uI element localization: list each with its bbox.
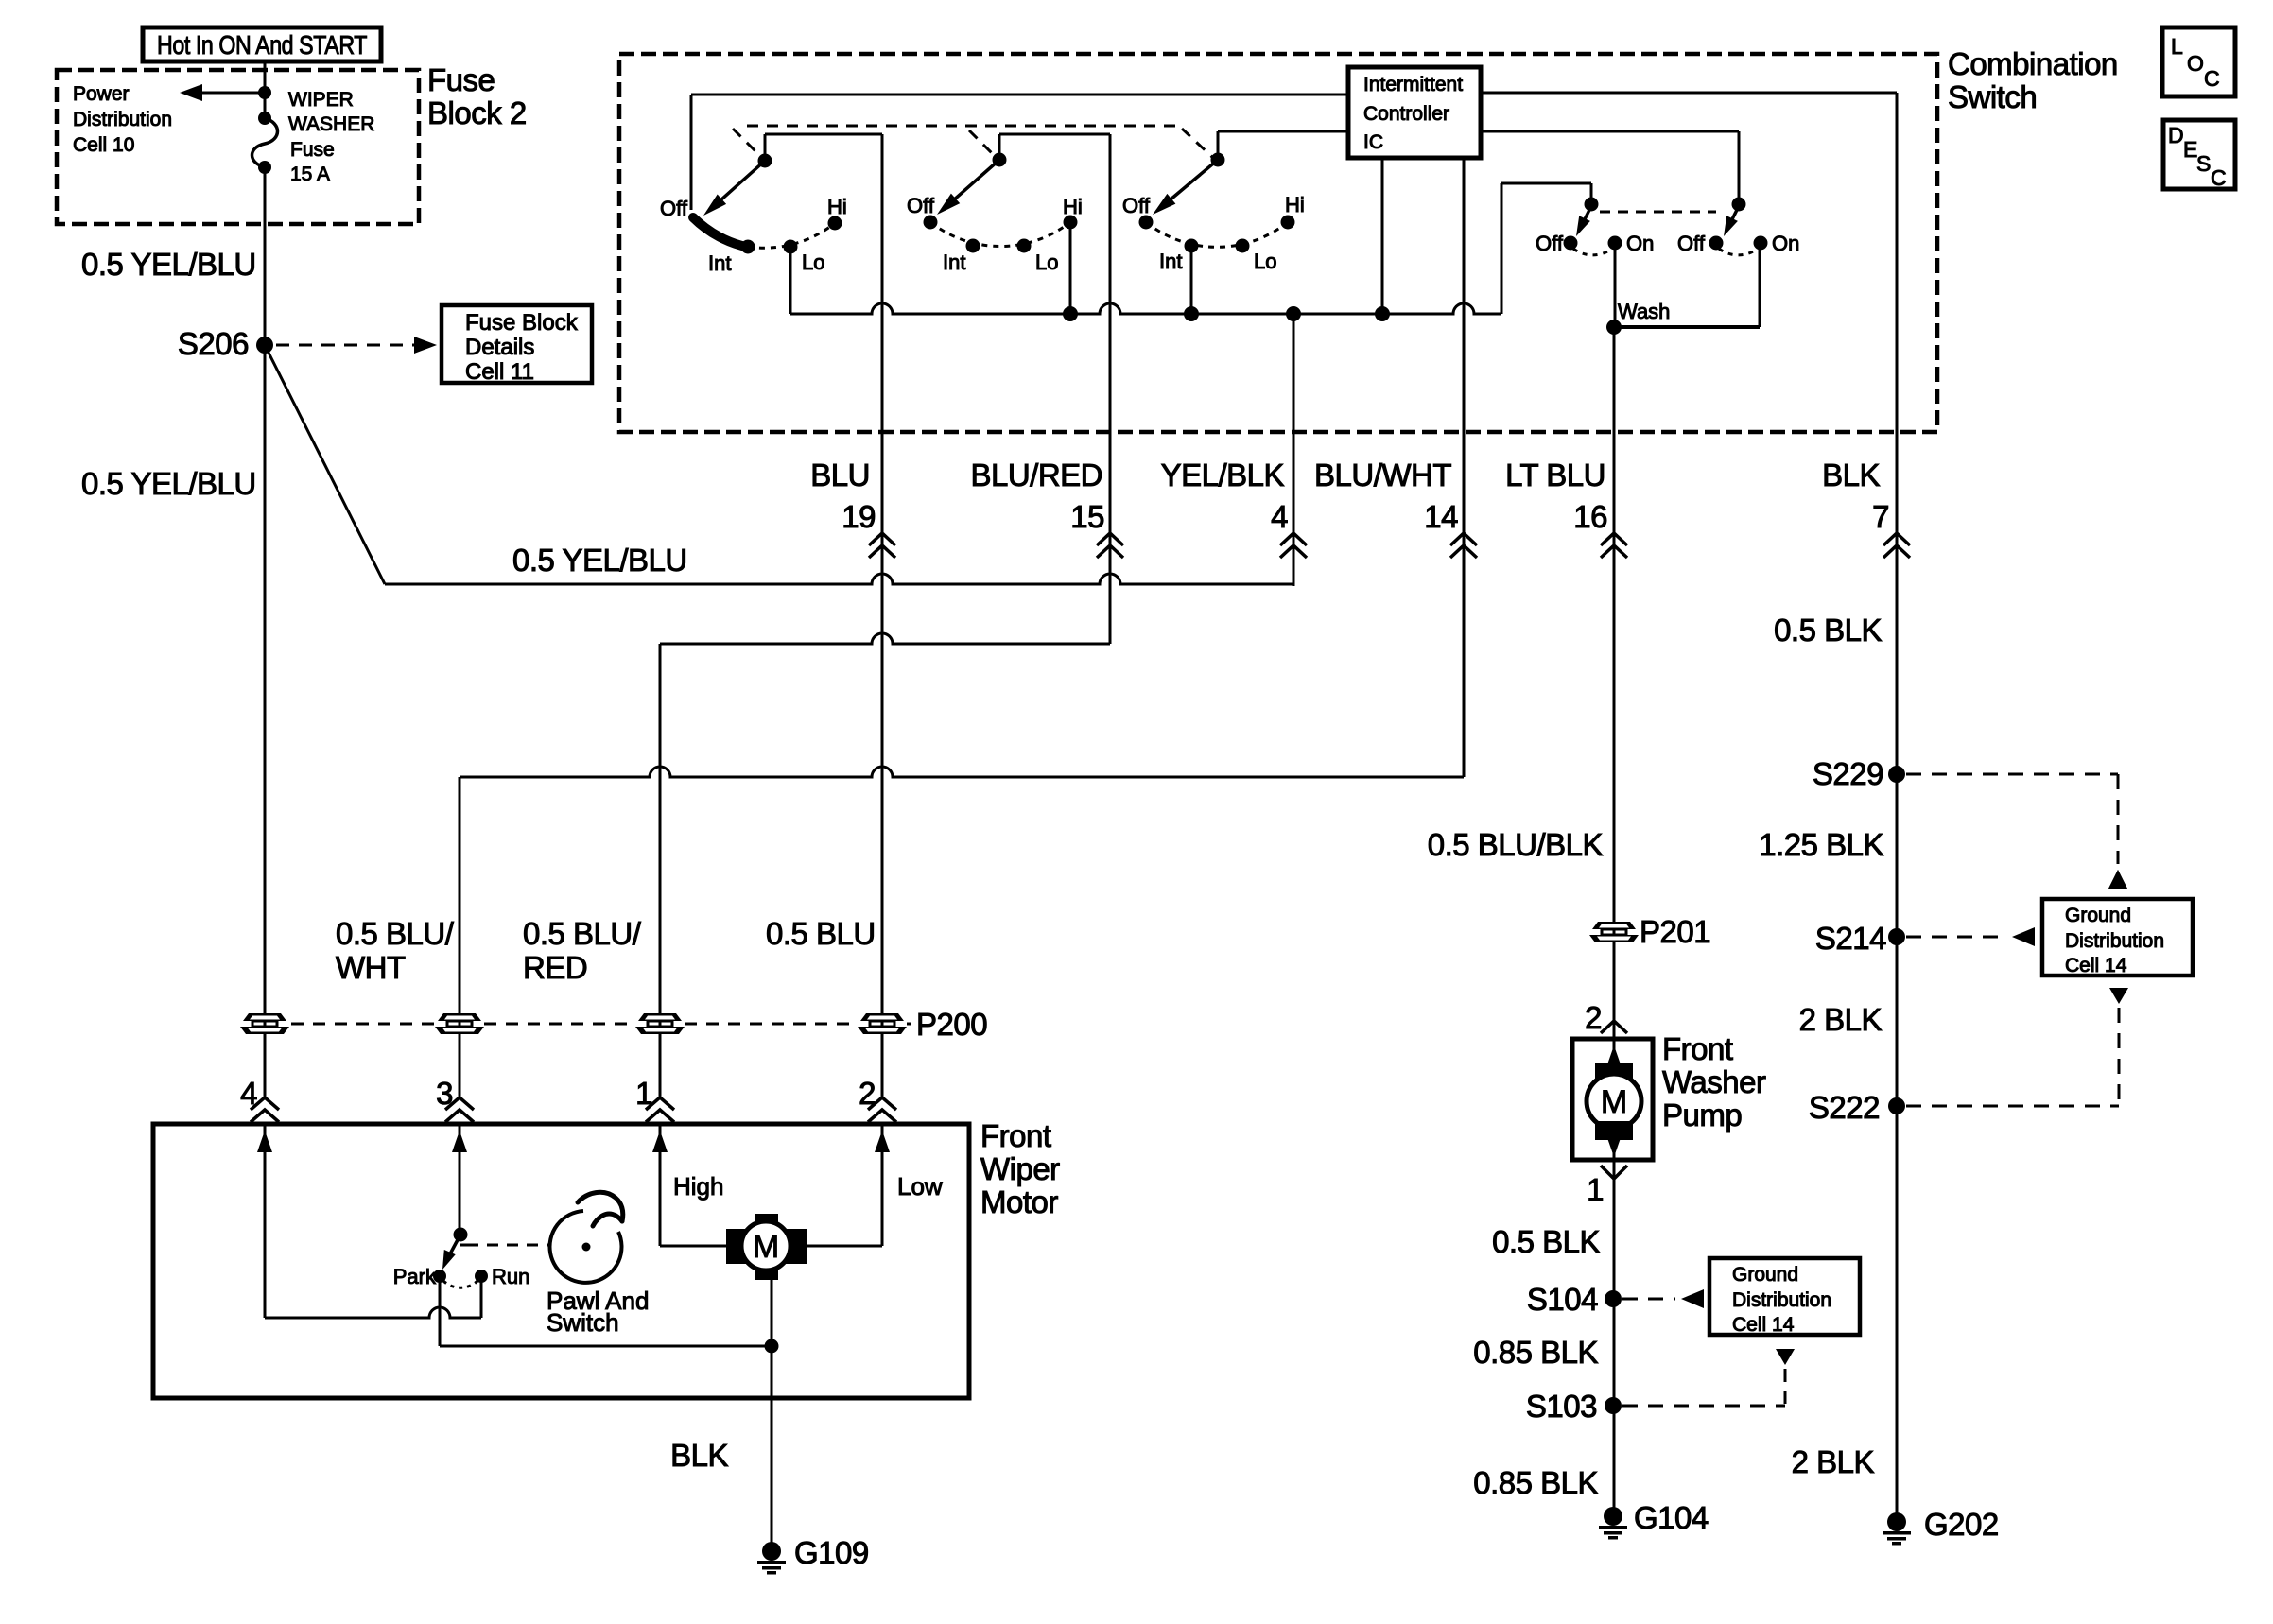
svg-text:Int: Int: [943, 251, 965, 274]
svg-text:Front: Front: [1662, 1031, 1733, 1066]
svg-text:IC: IC: [1363, 131, 1383, 153]
svg-text:7: 7: [1872, 499, 1889, 534]
svg-text:1: 1: [1587, 1172, 1604, 1207]
svg-text:Hot In ON And START: Hot In ON And START: [157, 30, 367, 60]
svg-text:0.5 YEL/BLU: 0.5 YEL/BLU: [512, 543, 687, 578]
svg-text:Hi: Hi: [1063, 195, 1083, 218]
svg-text:Low: Low: [897, 1172, 943, 1201]
svg-text:WASHER: WASHER: [288, 113, 374, 135]
svg-text:S104: S104: [1527, 1282, 1598, 1317]
svg-text:P200: P200: [916, 1007, 987, 1042]
svg-text:Off: Off: [1122, 194, 1151, 217]
svg-text:S214: S214: [1815, 921, 1886, 956]
svg-text:0.5 YEL/BLU: 0.5 YEL/BLU: [81, 466, 256, 501]
svg-text:Cell 14: Cell 14: [1732, 1314, 1795, 1336]
svg-text:2 BLK: 2 BLK: [1792, 1444, 1875, 1479]
svg-text:L: L: [2171, 34, 2183, 59]
svg-text:0.5 YEL/BLU: 0.5 YEL/BLU: [81, 247, 256, 282]
svg-text:RED: RED: [523, 950, 587, 985]
svg-text:Motor: Motor: [980, 1184, 1058, 1219]
svg-text:Distribution: Distribution: [73, 109, 172, 130]
svg-text:G109: G109: [794, 1535, 869, 1570]
svg-text:0.5 BLU: 0.5 BLU: [766, 916, 876, 951]
svg-text:0.5 BLK: 0.5 BLK: [1774, 613, 1882, 648]
svg-text:WHT: WHT: [336, 950, 406, 985]
svg-text:O: O: [2187, 51, 2204, 76]
svg-text:Cell 10: Cell 10: [73, 134, 134, 156]
svg-text:Off: Off: [907, 194, 935, 217]
svg-text:Fuse: Fuse: [427, 62, 495, 97]
svg-text:0.5 BLU/: 0.5 BLU/: [336, 916, 455, 951]
svg-text:S103: S103: [1526, 1389, 1597, 1424]
svg-text:0.5 BLU/: 0.5 BLU/: [523, 916, 642, 951]
svg-text:2 BLK: 2 BLK: [1799, 1002, 1883, 1037]
svg-text:M: M: [1601, 1084, 1627, 1120]
svg-text:Off: Off: [1536, 232, 1564, 255]
svg-text:LT BLU: LT BLU: [1505, 458, 1605, 492]
svg-text:Pump: Pump: [1662, 1097, 1742, 1132]
svg-text:M: M: [753, 1229, 779, 1265]
svg-text:Park: Park: [393, 1265, 437, 1288]
svg-text:BLU/RED: BLU/RED: [970, 458, 1102, 492]
svg-text:S: S: [2196, 151, 2211, 176]
svg-text:S229: S229: [1813, 756, 1883, 791]
svg-text:Lo: Lo: [1254, 250, 1276, 273]
svg-text:Off: Off: [1677, 232, 1706, 255]
svg-text:Distribution: Distribution: [1732, 1289, 1831, 1311]
svg-text:BLK: BLK: [1822, 458, 1880, 492]
svg-text:Ground: Ground: [1732, 1264, 1798, 1286]
svg-text:YEL/BLK: YEL/BLK: [1161, 458, 1285, 492]
svg-text:15: 15: [1070, 499, 1104, 534]
svg-text:Switch: Switch: [1948, 79, 2037, 114]
svg-text:Int: Int: [708, 251, 731, 275]
svg-text:S206: S206: [178, 326, 249, 361]
svg-text:Power: Power: [73, 83, 130, 105]
svg-text:G104: G104: [1634, 1500, 1709, 1535]
svg-text:WIPER: WIPER: [288, 89, 354, 111]
svg-text:Wiper: Wiper: [980, 1151, 1060, 1186]
svg-text:19: 19: [842, 499, 876, 534]
svg-text:14: 14: [1424, 499, 1458, 534]
svg-text:4: 4: [1271, 499, 1288, 534]
svg-text:0.5 BLU/BLK: 0.5 BLU/BLK: [1428, 827, 1604, 862]
svg-text:Hi: Hi: [1285, 193, 1305, 216]
svg-text:Front: Front: [980, 1118, 1051, 1153]
svg-text:D: D: [2168, 123, 2184, 147]
svg-text:High: High: [673, 1172, 723, 1201]
svg-text:Block 2: Block 2: [427, 95, 527, 130]
svg-text:16: 16: [1573, 499, 1607, 534]
svg-text:Run: Run: [492, 1265, 529, 1288]
svg-text:15 A: 15 A: [290, 164, 330, 185]
svg-text:Ground: Ground: [2065, 905, 2131, 926]
svg-text:Fuse: Fuse: [290, 139, 335, 161]
svg-text:On: On: [1626, 232, 1654, 255]
svg-text:C: C: [2211, 165, 2227, 190]
svg-text:On: On: [1772, 232, 1799, 255]
svg-text:Details: Details: [465, 335, 534, 360]
svg-text:1.25 BLK: 1.25 BLK: [1759, 827, 1883, 862]
svg-text:G202: G202: [1924, 1507, 1999, 1542]
svg-text:C: C: [2204, 66, 2220, 91]
svg-text:Cell 14: Cell 14: [2065, 955, 2127, 976]
svg-text:Distribution: Distribution: [2065, 930, 2164, 952]
svg-text:Lo: Lo: [1035, 251, 1058, 274]
svg-text:0.5 BLK: 0.5 BLK: [1492, 1224, 1600, 1259]
svg-text:Lo: Lo: [802, 251, 824, 274]
svg-text:BLU: BLU: [810, 458, 870, 492]
svg-text:Int: Int: [1159, 250, 1182, 273]
svg-text:BLU/WHT: BLU/WHT: [1314, 458, 1451, 492]
svg-text:Washer: Washer: [1662, 1064, 1766, 1099]
svg-text:S222: S222: [1809, 1090, 1880, 1125]
svg-text:Fuse Block: Fuse Block: [465, 310, 579, 336]
svg-text:Switch: Switch: [547, 1308, 619, 1337]
svg-text:Cell 11: Cell 11: [465, 359, 534, 385]
svg-text:2: 2: [1585, 1000, 1602, 1035]
svg-text:Wash: Wash: [1618, 300, 1670, 323]
svg-text:0.85 BLK: 0.85 BLK: [1473, 1335, 1598, 1370]
svg-text:Intermittent: Intermittent: [1363, 74, 1463, 95]
svg-text:Hi: Hi: [827, 195, 847, 218]
svg-text:Controller: Controller: [1363, 103, 1449, 125]
svg-text:Combination: Combination: [1948, 46, 2118, 81]
svg-text:Off: Off: [660, 197, 688, 220]
svg-text:P201: P201: [1640, 914, 1710, 949]
svg-text:0.85 BLK: 0.85 BLK: [1473, 1465, 1598, 1500]
svg-text:BLK: BLK: [670, 1438, 728, 1473]
